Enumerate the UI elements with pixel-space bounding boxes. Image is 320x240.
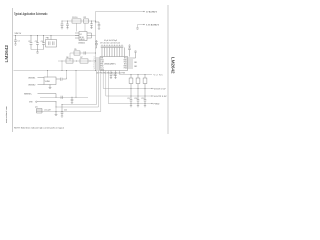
capacitor C17 output column 1: [127, 98, 132, 107]
wire feedback row 2: [58, 60, 96, 62]
svg-text:1: 1: [94, 57, 95, 59]
junction top bias bus: [62, 21, 97, 23]
left margin rule: [12, 8, 14, 132]
capacitor C21 (right of U3): [56, 78, 67, 81]
svg-text:VIN: VIN: [101, 58, 105, 60]
capacitor C6: [61, 21, 64, 29]
IC U1 body: [100, 57, 128, 71]
capacitor C27 at 5V node: [96, 22, 101, 29]
svg-text:SW1: SW1: [124, 60, 128, 62]
svg-text:Typical Application Schematic: Typical Application Schematic: [14, 12, 48, 16]
ground near U1 right top: [133, 51, 137, 58]
svg-text:R6: R6: [66, 57, 68, 59]
svg-text:BT1: BT1: [124, 58, 127, 60]
wire bottom pin 5 to VOUT2 row: [106, 71, 152, 97]
U1 bottom pin labels row: [96, 72, 126, 74]
capacitor C13 under U1: [110, 71, 116, 79]
node VOUT1 terminal: [151, 88, 166, 91]
junction dots lower-left rail: [47, 70, 96, 71]
node SENSE input row: [24, 93, 56, 97]
resistor R5: [74, 49, 80, 55]
junction dots bottom-left: [56, 101, 63, 107]
node EN1 input row: [28, 77, 44, 79]
svg-text:IN SD: IN SD: [80, 37, 85, 39]
wire bottom pin 3 to low-side row: [42, 71, 101, 112]
svg-text:CB1: CB1: [134, 62, 137, 64]
U2 right pins: [87, 33, 92, 38]
junction dots output columns: [131, 74, 146, 97]
wire bottom pin 2 nested L: [56, 71, 99, 108]
junction dots on VIN rail: [15, 35, 52, 36]
resistor R4 output column 2: [136, 75, 140, 100]
svg-text:www.national.com: www.national.com: [5, 106, 8, 123]
op-amp U2 body: [78, 32, 87, 45]
wire bottom pin 9 to output column rail: [120, 71, 153, 75]
svg-text:SENSE+: SENSE+: [24, 93, 33, 95]
wire bottom pin 4 to VOUT1 row: [103, 71, 152, 89]
wire tap x76 from lower rail: [75, 71, 77, 98]
capacitor C18 output column 2: [134, 98, 139, 107]
wire long lower-left rail: [14, 70, 96, 72]
svg-text:VOUT2 3.3V: VOUT2 3.3V: [154, 96, 168, 98]
capacitor C19 output column 3: [141, 98, 146, 107]
capacitor C2: [28, 36, 32, 50]
wire vertical 5V feed: [95, 12, 97, 71]
U1 right pin stubs: [128, 58, 134, 68]
svg-text:C1: C1: [18, 41, 20, 43]
U2 left pins: [75, 33, 79, 38]
capacitor C14 under U1: [114, 71, 117, 79]
svg-text:0.1µF 1nF 470pF: 0.1µF 1nF 470pF: [104, 40, 117, 42]
svg-text:7: 7: [94, 69, 95, 71]
wire bottom pin 1 long L to left block: [62, 71, 97, 105]
wire input cap ground bus: [31, 49, 44, 51]
node EN2 input row: [28, 84, 44, 86]
svg-text:VIN 5V: VIN 5V: [15, 33, 22, 35]
svg-text:FB2: FB2: [101, 66, 104, 68]
right margin rule: [167, 5, 169, 134]
svg-text:VLIN5: VLIN5: [154, 75, 164, 77]
svg-text:LM2642: LM2642: [170, 57, 175, 74]
svg-text:VLIN5: VLIN5: [45, 81, 50, 83]
svg-text:C2: C2: [28, 41, 30, 43]
svg-text:Q1: Q1: [35, 106, 38, 108]
svg-text:PGND: PGND: [154, 104, 160, 106]
svg-text:C18: C18: [134, 98, 137, 100]
svg-text:C3: C3: [35, 41, 37, 43]
ground under U3: [49, 85, 52, 89]
svg-text:R7: R7: [80, 57, 82, 59]
svg-text:VIN: VIN: [29, 102, 33, 104]
svg-text:HD2: HD2: [124, 68, 127, 70]
capacitor bank over U1 top pins: [101, 45, 124, 48]
junction dots feedback: [62, 53, 97, 62]
wire VDD tap to regulator: [48, 71, 67, 78]
wire U2 to VDD vertical: [92, 35, 96, 37]
resistor R1: [72, 17, 81, 23]
node VIN2 terminal bottom-left: [29, 101, 56, 107]
resistor R8 output column 3: [143, 75, 147, 100]
svg-text:BT2: BT2: [124, 64, 127, 66]
svg-text:6: 6: [94, 67, 95, 69]
resistor R6: [66, 57, 73, 63]
svg-text:SW2: SW2: [124, 66, 128, 68]
svg-text:FB1: FB1: [46, 38, 49, 40]
wire top bias bus: [62, 20, 96, 22]
svg-text:C4: C4: [41, 41, 43, 43]
svg-text:ON/SS1: ON/SS1: [28, 77, 36, 79]
junction dots mid-bottom rail: [56, 70, 77, 98]
svg-text:L2 2.2µH: L2 2.2µH: [44, 110, 51, 112]
U1 pin numbers left: [94, 57, 95, 71]
svg-text:4: 4: [94, 63, 95, 65]
svg-text:HD1: HD1: [124, 62, 127, 64]
svg-text:C25: C25: [64, 110, 67, 112]
svg-text:LM3411: LM3411: [78, 43, 85, 45]
top pin labels row: [100, 40, 120, 45]
wire feedback row 1: [70, 53, 96, 61]
svg-text:U2: U2: [80, 34, 82, 36]
transistor Q1 (low-side FET): [35, 106, 67, 113]
wire 5V output line: [96, 11, 145, 13]
capacitor C12 (VDD bypass): [128, 45, 131, 57]
ground input caps: [36, 50, 39, 54]
capacitor C7: [66, 21, 69, 29]
svg-text:NOTE: Bold lines indicate high: NOTE: Bold lines indicate high current p…: [14, 126, 64, 129]
regulator U3 body: [44, 77, 56, 85]
svg-text:5V ALWAYS: 5V ALWAYS: [146, 11, 158, 14]
svg-text:ON/SS2: ON/SS2: [28, 84, 36, 86]
node VIN label: [15, 33, 22, 35]
wire R1 to U2: [77, 23, 86, 31]
svg-text:FB1: FB1: [101, 64, 104, 66]
wire Q1 drain row: [55, 107, 57, 112]
svg-text:CB2: CB2: [134, 66, 137, 68]
node 5V output terminal: [143, 11, 157, 14]
svg-text:2: 2: [94, 59, 95, 61]
node 3.3V output terminal: [143, 24, 159, 27]
capacitor C26 at 5V node: [90, 21, 93, 29]
resistor R3 output column 1: [129, 75, 133, 100]
bottom-left vertical footer text: [5, 106, 8, 123]
left edge part number LM2642 (rotated): [4, 45, 10, 63]
capacitor C1: [14, 36, 20, 46]
svg-text:VOUT1 5V: VOUT1 5V: [154, 89, 167, 91]
resistor R2: [84, 17, 89, 23]
capacitor C24 on mid-bottom rail: [71, 97, 74, 103]
resistor R7: [80, 57, 88, 63]
U1 right stub labels: [134, 62, 137, 68]
svg-text:C9 C10 C11 C12 C13 C14: C9 C10 C11 C12 C13 C14: [100, 43, 120, 45]
wire VLIN5 rail: [154, 75, 164, 77]
capacitor C3: [35, 36, 39, 50]
svg-text:C19: C19: [141, 98, 144, 100]
svg-text:5: 5: [94, 65, 95, 67]
node VOUT2 terminal: [151, 95, 167, 98]
svg-text:R5: R5: [74, 49, 76, 51]
wire mid-bottom rail: [40, 96, 88, 98]
wire bottom pin 8 to lower rail: [108, 71, 152, 104]
svg-text:R1 10: R1 10: [72, 17, 77, 19]
svg-text:GN FB: GN FB: [80, 39, 85, 41]
U1 left pin stubs: [96, 58, 101, 70]
svg-text:3.3V ALWAYS: 3.3V ALWAYS: [146, 24, 160, 27]
capacitor C8 at U1 top-left with ground: [95, 41, 98, 49]
wire 3.3V output line: [138, 25, 145, 29]
svg-text:C17: C17: [127, 98, 130, 100]
svg-text:R2: R2: [84, 17, 86, 19]
wire feedback tap down: [61, 61, 63, 71]
page title: [14, 12, 48, 16]
wire VIN rail: [14, 35, 80, 37]
svg-text:LM2642: LM2642: [4, 45, 10, 63]
capacitor C20 (series): [84, 51, 86, 54]
right edge part number (rotated): [170, 57, 175, 74]
junction dots bottom rail: [131, 103, 146, 104]
ground at 3.3V filter: [136, 28, 139, 29]
node PGND terminal: [151, 103, 159, 106]
svg-text:LM2642MTC: LM2642MTC: [104, 63, 117, 65]
capacitor C22 on mid-bottom rail: [61, 96, 63, 99]
capacitor C23 bottom-left: [61, 105, 64, 118]
svg-text:CC2: CC2: [101, 68, 104, 70]
U1 right pin names: [124, 58, 128, 70]
junction dots Q1 row: [56, 111, 63, 112]
U1 left pin names: [101, 58, 105, 72]
ground at Q1 source: [55, 112, 58, 116]
capacitor C4: [41, 36, 45, 50]
svg-text:UVD: UVD: [101, 60, 105, 62]
EMI filter block FB1: [46, 36, 57, 48]
U1 top pin lines: [102, 48, 125, 57]
footer note text: [14, 126, 64, 129]
